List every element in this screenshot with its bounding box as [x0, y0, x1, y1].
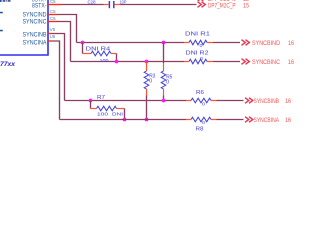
off-page connector SYNCBIND [242, 40, 295, 47]
resistor R8 [186, 117, 217, 132]
svg-text:DNI: DNI [112, 112, 123, 118]
svg-text:0: 0 [166, 79, 169, 85]
svg-text:DNI R2: DNI R2 [186, 51, 209, 57]
svg-text:0: 0 [149, 78, 152, 84]
svg-text:SYNCBINB: SYNCBINB [254, 98, 280, 105]
wire net SYNCBINB horizontal [65, 100, 187, 102]
pin stub SYNCINC [48, 21, 57, 23]
svg-text:C28: C28 [88, 0, 96, 6]
wire SYNCINC down [57, 22, 71, 62]
resistor R5 vertical [161, 63, 172, 96]
wire R5 top from SYNCBIND [163, 43, 165, 64]
svg-text:C5: C5 [50, 9, 56, 14]
svg-text:C5: C5 [50, 0, 56, 4]
IC U? box edge [0, 0, 48, 55]
off-page connector SYNCBINA [245, 117, 291, 125]
resistor R1 [184, 31, 213, 48]
svg-text:16: 16 [288, 59, 294, 66]
off-page connector DP7_M2C_P [198, 2, 250, 10]
cut text fragment left edge 2 [0, 30, 3, 32]
junction dot R3/SYNCBINA [145, 118, 149, 122]
svg-text:R8: R8 [196, 126, 204, 132]
off-page connector SYNCBINB [245, 98, 291, 106]
wire net SYNCBIND horizontal [77, 42, 185, 44]
svg-text:R7: R7 [97, 95, 105, 101]
resistor R4 with leads [83, 43, 117, 64]
svg-text:SYNCINA: SYNCINA [23, 40, 48, 47]
svg-text:0: 0 [202, 102, 206, 107]
svg-text:R6: R6 [196, 90, 204, 96]
svg-text:DP7_M2C_P: DP7_M2C_P [208, 3, 236, 10]
junction dot R3/SYNCBINC [145, 60, 149, 64]
resistor R2 [184, 51, 213, 64]
capacitor C28 [104, 1, 121, 8]
svg-text:8STX-: 8STX- [32, 3, 47, 10]
wire R1 right to connector [213, 42, 240, 44]
svg-text:SYNCINC: SYNCINC [23, 18, 47, 25]
svg-text:SYNCBINC: SYNCBINC [252, 59, 280, 66]
pin stub SYNCINB [48, 33, 52, 35]
off-page connector SYNCBINC [242, 59, 295, 66]
resistor R6 [186, 90, 217, 107]
resistor R3 vertical [144, 62, 155, 96]
svg-text:C5: C5 [50, 16, 56, 21]
svg-text:SYNCINB: SYNCINB [23, 31, 47, 38]
svg-text:100: 100 [100, 58, 109, 64]
svg-text:V5: V5 [50, 27, 56, 32]
svg-text:77xx: 77xx [0, 61, 16, 68]
wire R2 right to connector [213, 61, 240, 63]
cut text fragment top-left [0, 0, 11, 2]
pin stub SYNCINA [48, 40, 52, 42]
junction dot SYNCBIND/R5 [162, 41, 166, 45]
svg-text:16: 16 [285, 98, 291, 105]
svg-text:DNI R4: DNI R4 [86, 46, 111, 52]
svg-text:100: 100 [97, 112, 108, 118]
svg-text:DP7_M2C_N: DP7_M2C_N [208, 0, 236, 3]
svg-text:SYNCBINA: SYNCBINA [254, 117, 280, 124]
svg-text:0: 0 [200, 43, 204, 48]
junction dot R4/SYNCBINC [115, 60, 119, 64]
wire SYNCINB down [52, 34, 65, 101]
cut text fragment left edge [0, 12, 3, 14]
junction dot R7/SYNCBINB [89, 99, 93, 103]
junction dot R5/SYNCBINB [162, 99, 166, 103]
svg-text:15: 15 [243, 0, 249, 3]
pin stub 8STX- [48, 4, 61, 6]
wire net SYNCBINA horizontal [60, 119, 187, 121]
resistor R7 with leads [91, 95, 125, 120]
svg-text:0: 0 [202, 120, 206, 125]
svg-text:DNI R1: DNI R1 [185, 31, 210, 37]
svg-text:16: 16 [288, 40, 294, 47]
wire R5 bottom to SYNCBINB [163, 96, 165, 101]
junction dot SYNCBIND/R4 [81, 41, 85, 45]
svg-text:SYNCBIND: SYNCBIND [252, 40, 280, 47]
svg-text:U5: U5 [50, 34, 56, 39]
wire R3 bottom to SYNCBINA [146, 96, 148, 120]
wire R6 right to connector [217, 100, 244, 102]
wire net SYNCBINC horizontal [71, 61, 185, 63]
off-page connector cut row top [198, 0, 250, 3]
wire SYNCINA down [52, 41, 60, 120]
wire R8 right to connector [217, 119, 244, 121]
pin stub SYNCIND [48, 14, 57, 16]
svg-text:16: 16 [285, 117, 291, 124]
junction dot R7/SYNCBINA [123, 118, 127, 122]
svg-text:15: 15 [243, 3, 249, 10]
wire 8STX- to C28 [61, 4, 104, 6]
wire SYNCIND down [57, 15, 77, 43]
wire C28 to connector [121, 4, 197, 6]
svg-text:0: 0 [200, 56, 204, 61]
